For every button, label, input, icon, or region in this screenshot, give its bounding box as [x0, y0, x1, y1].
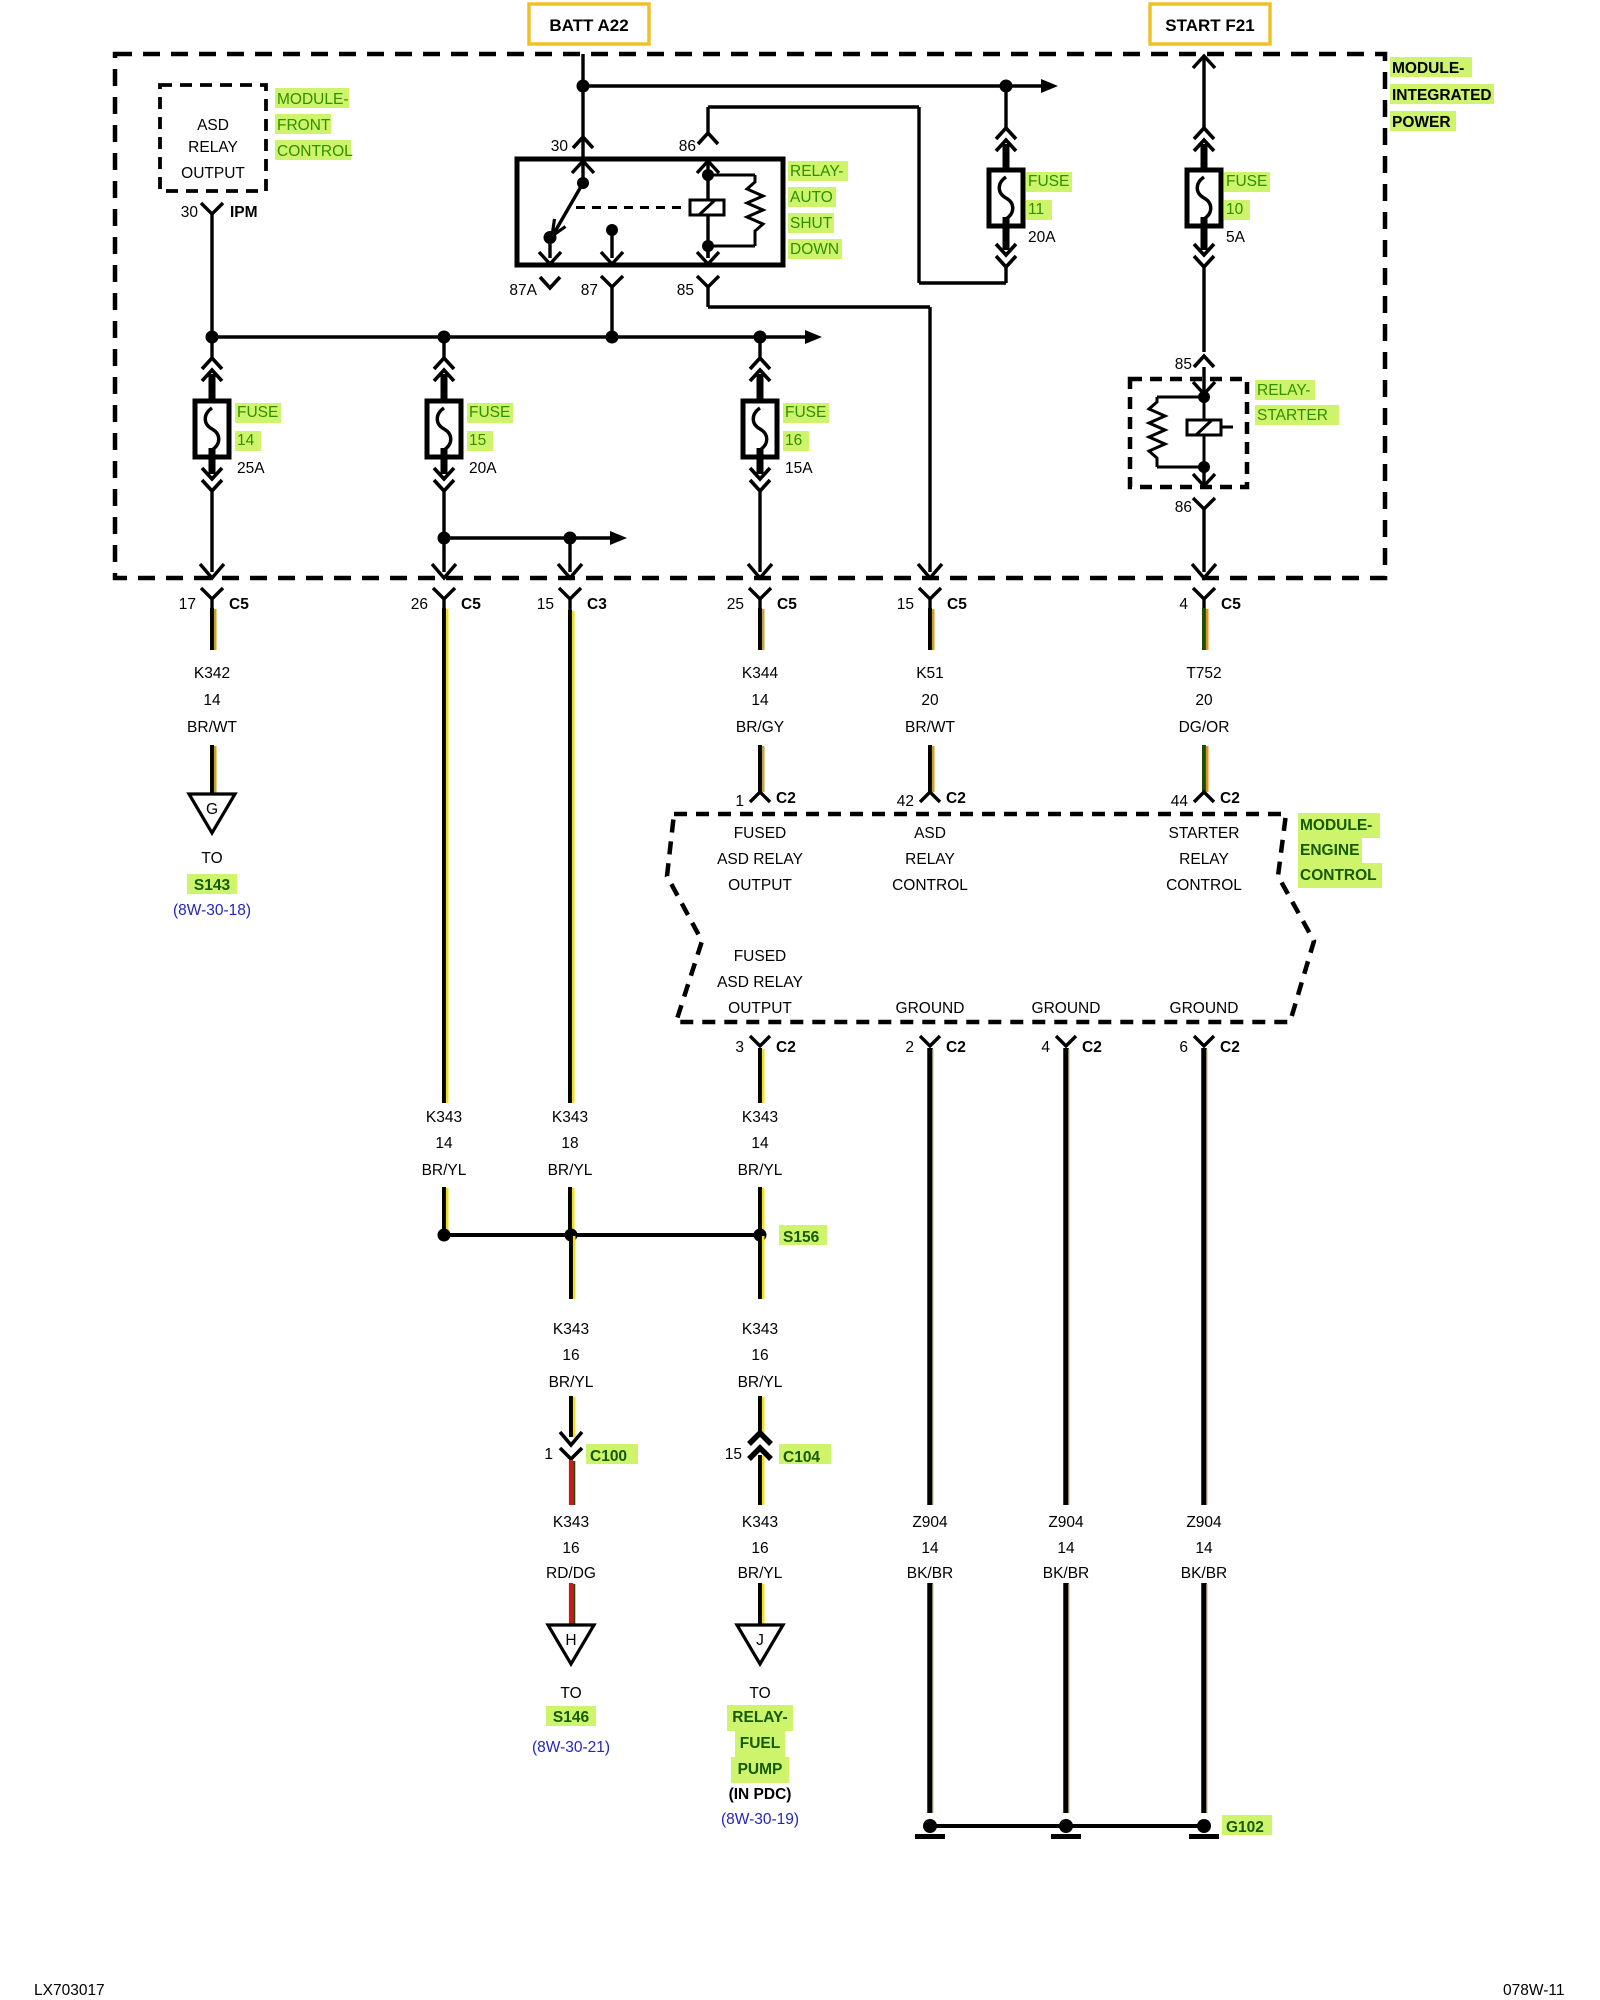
- connector Y pin 86 below starter relay: [1175, 498, 1215, 572]
- off-page connector J: [737, 1625, 783, 1664]
- svg-text:16: 16: [751, 1347, 768, 1364]
- svg-text:RELAY: RELAY: [188, 139, 238, 156]
- svg-text:STARTER: STARTER: [1169, 825, 1240, 842]
- label FUSE 16 15A: [783, 403, 829, 477]
- connector C2 pin 4 engine module bottom: [1041, 1036, 1101, 1056]
- connector C5 pin 15 at IPM boundary: [897, 564, 967, 613]
- svg-text:RELAY-: RELAY-: [790, 163, 843, 180]
- wire label K343 16 BR/YL: [738, 1514, 783, 1582]
- svg-text:(IN PDC): (IN PDC): [729, 1786, 792, 1803]
- svg-text:MODULE-: MODULE-: [1300, 817, 1372, 834]
- wire: fuse 16 output: [758, 491, 761, 572]
- svg-text:14: 14: [203, 692, 221, 709]
- wire label K343 14 BR/YL: [422, 1109, 467, 1179]
- connector chevron pin 30 above relay: [573, 137, 593, 148]
- svg-text:INTEGRATED: INTEGRATED: [1392, 87, 1492, 104]
- fuse F11: [989, 128, 1023, 283]
- svg-text:K344: K344: [742, 665, 779, 682]
- fuse F14: [195, 337, 229, 491]
- svg-text:(8W-30-21): (8W-30-21): [532, 1739, 610, 1756]
- label MODULE-ENGINE CONTROL: [1298, 813, 1382, 888]
- ground symbol (x=1204): [1189, 1819, 1219, 1839]
- svg-text:20: 20: [921, 692, 939, 709]
- wire: IPM distribution bus: [206, 330, 823, 344]
- wire Z904 14 BK/BR (x=1204): [1204, 1048, 1207, 1505]
- svg-text:BATT A22: BATT A22: [549, 16, 628, 35]
- pin 86 male arrow into relay: [697, 161, 719, 200]
- wire K343 to S156: [444, 1187, 447, 1235]
- wire Z904 lower: [1066, 1583, 1069, 1813]
- svg-text:14: 14: [1195, 1540, 1213, 1557]
- label FUSE 10 5A: [1224, 172, 1270, 246]
- svg-text:FUSE: FUSE: [785, 404, 826, 421]
- svg-text:IPM: IPM: [230, 204, 258, 221]
- svg-text:30: 30: [551, 138, 569, 155]
- svg-text:2: 2: [905, 1039, 914, 1056]
- wire Z904 14 BK/BR (x=930): [930, 1048, 933, 1505]
- wire K343 to S156: [760, 1187, 763, 1235]
- label RELAY-AUTO SHUT DOWN: [788, 161, 848, 259]
- connector C2 pin 42 engine module: [897, 790, 966, 810]
- svg-text:CONTROL: CONTROL: [277, 143, 353, 160]
- svg-text:10: 10: [1226, 201, 1244, 218]
- svg-text:FRONT: FRONT: [277, 117, 331, 134]
- svg-text:ASD RELAY: ASD RELAY: [717, 851, 803, 868]
- wire K343 16 BR/YL below S156: [571, 1235, 574, 1299]
- wire T752 lower: [1204, 745, 1207, 792]
- connector C5 pin 4 at IPM boundary: [1179, 564, 1241, 613]
- svg-text:C3: C3: [587, 596, 607, 613]
- label C100: [586, 1444, 638, 1465]
- connector C2 pin 3 engine module bottom: [735, 1036, 795, 1056]
- wire to C104: [760, 1396, 763, 1434]
- svg-text:85: 85: [677, 282, 694, 299]
- svg-text:16: 16: [785, 432, 802, 449]
- pin 30 label: [551, 138, 569, 155]
- starter relay resistor: [1149, 397, 1204, 467]
- svg-text:ASD: ASD: [914, 825, 946, 842]
- label C104: [779, 1444, 831, 1466]
- wire K344 lower: [760, 745, 763, 792]
- svg-text:30: 30: [181, 204, 199, 221]
- svg-text:BK/BR: BK/BR: [1043, 1565, 1090, 1582]
- svg-text:ENGINE: ENGINE: [1300, 842, 1359, 859]
- svg-text:87: 87: [581, 282, 598, 299]
- svg-text:DOWN: DOWN: [790, 241, 839, 258]
- wire K342 14 BR/WT upper: [212, 608, 215, 650]
- svg-text:OUTPUT: OUTPUT: [181, 165, 245, 182]
- starter relay pin 86 male arrow: [1193, 467, 1215, 486]
- engine module pin function labels row 1: [717, 825, 1242, 894]
- connector C100 pin 1: [544, 1432, 582, 1463]
- svg-text:BR/YL: BR/YL: [738, 1162, 783, 1179]
- svg-text:FUSED: FUSED: [734, 948, 787, 965]
- wire: top horizontal feed to fuse 11 with continuation arrow: [583, 79, 1058, 93]
- svg-text:15A: 15A: [785, 460, 813, 477]
- svg-text:BR/YL: BR/YL: [548, 1162, 593, 1179]
- svg-text:RELAY-: RELAY-: [732, 1709, 787, 1726]
- svg-text:14: 14: [921, 1540, 939, 1557]
- svg-text:C2: C2: [946, 1039, 966, 1056]
- svg-text:14: 14: [751, 1135, 769, 1152]
- svg-text:C5: C5: [461, 596, 481, 613]
- relay K1 RELAY-AUTO SHUT DOWN box: [517, 159, 783, 265]
- ground bus G102: [930, 1824, 1204, 1828]
- connector C5 pin 26 at IPM boundary: [411, 564, 481, 613]
- pin 87 terminal: [601, 224, 623, 264]
- svg-text:6: 6: [1179, 1039, 1188, 1056]
- svg-text:86: 86: [1175, 499, 1192, 516]
- wire: fuse 15 output with branch: [438, 491, 628, 572]
- svg-text:G102: G102: [1226, 1819, 1264, 1836]
- svg-text:15: 15: [725, 1446, 742, 1463]
- svg-text:C2: C2: [776, 1039, 796, 1056]
- connector C3 pin 15 at IPM boundary: [537, 564, 607, 613]
- svg-text:1: 1: [544, 1446, 553, 1463]
- svg-text:K343: K343: [742, 1321, 778, 1338]
- wire K342 lower: [212, 745, 215, 794]
- svg-text:26: 26: [411, 596, 428, 613]
- wire Z904 lower: [930, 1583, 933, 1813]
- svg-text:42: 42: [897, 793, 914, 810]
- connector C2 pin 6 engine module bottom: [1179, 1036, 1239, 1056]
- svg-text:1: 1: [735, 793, 744, 810]
- svg-text:RELAY-: RELAY-: [1257, 382, 1310, 399]
- off-page connector H: [548, 1625, 594, 1664]
- pin 86 label: [679, 138, 696, 155]
- label S156: [779, 1225, 827, 1246]
- svg-text:K343: K343: [553, 1514, 589, 1531]
- svg-text:C2: C2: [946, 790, 966, 807]
- connector C2 pin 2 engine module bottom: [905, 1036, 965, 1056]
- wire label K343 18 BR/YL: [548, 1109, 593, 1179]
- svg-text:CONTROL: CONTROL: [892, 877, 968, 894]
- wire BR/YL lower: [760, 1583, 763, 1625]
- svg-text:15: 15: [537, 596, 554, 613]
- svg-text:K343: K343: [742, 1109, 778, 1126]
- svg-text:H: H: [565, 1632, 576, 1649]
- connector chevron pin 87A below relay: [509, 277, 560, 299]
- svg-text:Z904: Z904: [1186, 1514, 1222, 1531]
- connector C104 pin 15: [725, 1433, 771, 1463]
- connector C2 pin 1 engine module: [735, 790, 795, 810]
- svg-text:S156: S156: [783, 1229, 820, 1246]
- wire label K344 14 BR/GY: [736, 665, 784, 736]
- starter relay pin 85 male arrow: [1193, 367, 1215, 403]
- svg-text:16: 16: [562, 1540, 579, 1557]
- svg-text:20A: 20A: [1028, 229, 1056, 246]
- module boundary: MODULE-ENGINE CONTROL dashed outline: [667, 814, 1314, 1022]
- net label BATT A22: [529, 4, 649, 44]
- svg-text:14: 14: [751, 692, 769, 709]
- svg-text:K51: K51: [916, 665, 944, 682]
- svg-text:G: G: [206, 801, 218, 818]
- wire: fuse 11 output to ASD relay pin 86: [708, 107, 1006, 283]
- module boundary: MODULE-INTEGRATED POWER (IPM) dashed box: [115, 54, 1385, 578]
- svg-text:25A: 25A: [237, 460, 265, 477]
- svg-text:CONTROL: CONTROL: [1166, 877, 1242, 894]
- svg-text:S143: S143: [194, 877, 231, 894]
- relay RELAY-STARTER dashed box: [1130, 379, 1247, 487]
- male arrow START F21 into IPM: [1193, 56, 1215, 130]
- svg-text:BR/YL: BR/YL: [422, 1162, 467, 1179]
- svg-text:ASD RELAY: ASD RELAY: [717, 974, 803, 991]
- splice S156 bus: [438, 1229, 767, 1242]
- connector 30 IPM: [181, 203, 258, 228]
- wire label K343 16 BR/YL: [549, 1321, 594, 1391]
- svg-text:15: 15: [897, 596, 914, 613]
- wire K344 14 BR/GY upper: [760, 608, 763, 650]
- svg-text:START F21: START F21: [1165, 16, 1254, 35]
- label RELAY-STARTER: [1255, 380, 1339, 425]
- svg-text:S146: S146: [553, 1709, 590, 1726]
- svg-text:BK/BR: BK/BR: [1181, 1565, 1228, 1582]
- svg-text:K343: K343: [742, 1514, 778, 1531]
- svg-text:FUSE: FUSE: [237, 404, 278, 421]
- wire K343 16 RD/DG upper: [571, 1460, 574, 1505]
- wire T752 20 DG/OR upper: [1204, 608, 1207, 650]
- wire Z904 14 BK/BR (x=1066): [1066, 1048, 1069, 1505]
- svg-text:ASD: ASD: [197, 117, 229, 134]
- starter relay coil: [1187, 397, 1233, 473]
- svg-text:14: 14: [435, 1135, 453, 1152]
- wire: fuse 14 output: [210, 491, 213, 572]
- wire to C100: [571, 1396, 574, 1437]
- wire K343 16 BR/YL below C104: [760, 1455, 763, 1505]
- connector Y pin 85 below relay: [677, 276, 719, 299]
- wire K343 14 BR/YL from pin 3: [760, 1048, 763, 1103]
- svg-text:BR/YL: BR/YL: [738, 1374, 783, 1391]
- wire label K342 14 BR/WT: [187, 665, 237, 736]
- svg-text:C104: C104: [783, 1449, 820, 1466]
- label TO S143: [173, 850, 251, 919]
- svg-text:Z904: Z904: [912, 1514, 948, 1531]
- wire label K343 16 RD/DG: [546, 1514, 596, 1582]
- pin 85 male arrow out of relay: [697, 246, 719, 264]
- connector C5 pin 25 at IPM boundary: [727, 564, 797, 613]
- svg-text:87A: 87A: [509, 282, 537, 299]
- svg-text:FUSE: FUSE: [1028, 173, 1069, 190]
- off-page connector G: [189, 794, 235, 833]
- ground symbol (x=1066): [1051, 1819, 1081, 1839]
- svg-text:AUTO: AUTO: [790, 189, 833, 206]
- svg-text:C5: C5: [229, 596, 249, 613]
- svg-text:J: J: [756, 1632, 764, 1649]
- wire K343 to S156 bus: [570, 1187, 573, 1235]
- connector Y pin 87 below relay: [581, 276, 623, 337]
- svg-text:CONTROL: CONTROL: [1300, 867, 1377, 884]
- relay suppression resistor: [708, 175, 763, 246]
- svg-text:MODULE-: MODULE-: [277, 91, 348, 108]
- svg-text:RELAY: RELAY: [1179, 851, 1229, 868]
- svg-text:20: 20: [1195, 692, 1213, 709]
- svg-text:FUSE: FUSE: [469, 404, 510, 421]
- svg-text:TO: TO: [560, 1685, 581, 1702]
- connector C2 pin 44 engine module: [1171, 790, 1240, 810]
- svg-text:K343: K343: [552, 1109, 588, 1126]
- wire label Z904 14 BK/BR: [1181, 1514, 1228, 1582]
- wire RD/DG lower: [571, 1583, 574, 1625]
- wire label K343 14 BR/YL: [738, 1109, 783, 1179]
- svg-text:STARTER: STARTER: [1257, 407, 1328, 424]
- svg-text:RELAY: RELAY: [905, 851, 955, 868]
- svg-text:85: 85: [1175, 356, 1192, 373]
- pin 30 male arrow into relay: [572, 161, 594, 189]
- svg-text:Z904: Z904: [1048, 1514, 1084, 1531]
- svg-text:(8W-30-18): (8W-30-18): [173, 902, 251, 919]
- wire K343 16 BR/YL below S156 right: [760, 1235, 763, 1299]
- label FUSE 11 20A: [1026, 172, 1072, 246]
- svg-text:14: 14: [237, 432, 255, 449]
- wire label Z904 14 BK/BR: [907, 1514, 954, 1582]
- pin 87A terminal: [539, 231, 561, 264]
- svg-text:GROUND: GROUND: [1170, 1000, 1239, 1017]
- svg-text:POWER: POWER: [1392, 114, 1451, 131]
- svg-text:C5: C5: [947, 596, 967, 613]
- module boundary: ASD RELAY OUTPUT dashed box: [160, 85, 266, 191]
- svg-text:GROUND: GROUND: [896, 1000, 965, 1017]
- svg-text:5A: 5A: [1226, 229, 1246, 246]
- svg-text:FUSE: FUSE: [1226, 173, 1267, 190]
- wire K343 14 BR/YL long: [444, 608, 447, 1103]
- svg-text:C100: C100: [590, 1448, 627, 1465]
- svg-text:BR/WT: BR/WT: [187, 719, 237, 736]
- svg-text:LX703017: LX703017: [34, 1982, 105, 1999]
- ground symbol (x=930): [915, 1819, 945, 1839]
- wire: 30 IPM output down: [210, 228, 213, 337]
- wire K51 lower: [930, 745, 933, 792]
- svg-text:PUMP: PUMP: [738, 1761, 783, 1778]
- relay switch arm (30 to 87A): [552, 183, 583, 236]
- svg-text:DG/OR: DG/OR: [1179, 719, 1230, 736]
- svg-text:C5: C5: [777, 596, 797, 613]
- svg-text:16: 16: [562, 1347, 579, 1364]
- wire: BATT A22 down to ASD relay pin 30: [581, 54, 584, 159]
- svg-text:BR/GY: BR/GY: [736, 719, 784, 736]
- relay coil symbol: [690, 200, 724, 215]
- node: junction BATT feed: [577, 80, 590, 93]
- label FUSE 14 25A: [235, 403, 281, 477]
- svg-text:17: 17: [179, 596, 196, 613]
- svg-text:44: 44: [1171, 793, 1189, 810]
- fuse F16: [743, 337, 777, 491]
- connector chevron pin 86 above relay: [698, 133, 718, 144]
- sheet number 078W-11: [1503, 1982, 1564, 1999]
- svg-text:15: 15: [469, 432, 486, 449]
- svg-text:4: 4: [1179, 596, 1188, 613]
- relay internal dashed actuation link: [576, 206, 688, 209]
- wire label K343 16 BR/YL: [738, 1321, 783, 1391]
- svg-text:BR/YL: BR/YL: [549, 1374, 594, 1391]
- svg-text:GROUND: GROUND: [1032, 1000, 1101, 1017]
- svg-text:TO: TO: [749, 1685, 770, 1702]
- wire label T752 20 DG/OR: [1179, 665, 1230, 736]
- svg-text:14: 14: [1057, 1540, 1075, 1557]
- svg-text:11: 11: [1028, 201, 1044, 218]
- svg-text:4: 4: [1041, 1039, 1050, 1056]
- fuse F15: [427, 337, 461, 491]
- svg-text:C2: C2: [1082, 1039, 1102, 1056]
- svg-text:K343: K343: [553, 1321, 589, 1338]
- svg-text:OUTPUT: OUTPUT: [728, 1000, 792, 1017]
- label FUSE 15 20A: [467, 403, 513, 477]
- svg-text:C2: C2: [1220, 790, 1240, 807]
- wire: fuse 11 feed: [1004, 86, 1007, 130]
- svg-text:TO: TO: [201, 850, 222, 867]
- svg-text:C2: C2: [1220, 1039, 1240, 1056]
- label TO RELAY-FUEL PUMP: [721, 1685, 799, 1828]
- wire K343 18 BR/YL long: [570, 610, 573, 1103]
- svg-text:K342: K342: [194, 665, 230, 682]
- net label START F21: [1150, 4, 1270, 44]
- svg-text:078W-11: 078W-11: [1503, 1982, 1564, 1999]
- svg-text:(8W-30-19): (8W-30-19): [721, 1811, 799, 1828]
- label MODULE-INTEGRATED POWER: [1390, 57, 1494, 131]
- svg-text:BK/BR: BK/BR: [907, 1565, 954, 1582]
- svg-text:T752: T752: [1186, 665, 1221, 682]
- wire label K51 20 BR/WT: [905, 665, 955, 736]
- connector C5 pin 17 at IPM boundary: [179, 564, 249, 613]
- svg-text:OUTPUT: OUTPUT: [728, 877, 792, 894]
- wire label Z904 14 BK/BR: [1043, 1514, 1090, 1582]
- wire Z904 lower: [1204, 1583, 1207, 1813]
- svg-text:BR/WT: BR/WT: [905, 719, 955, 736]
- svg-text:C5: C5: [1221, 596, 1241, 613]
- label MODULE-FRONT CONTROL: [275, 88, 353, 160]
- fuse F10: [1187, 128, 1221, 352]
- sheet number LX703017: [34, 1982, 105, 1999]
- wire: pin 85 to K51 column: [708, 287, 930, 572]
- svg-text:3: 3: [735, 1039, 744, 1056]
- svg-text:18: 18: [561, 1135, 578, 1152]
- label G102: [1222, 1815, 1272, 1836]
- label TO S146: [532, 1685, 610, 1756]
- relay coil lower wire: [702, 215, 714, 258]
- svg-text:86: 86: [679, 138, 696, 155]
- svg-text:SHUT: SHUT: [790, 215, 833, 232]
- engine module pin function labels row 2: [717, 948, 1238, 1017]
- svg-text:16: 16: [751, 1540, 768, 1557]
- svg-text:FUSED: FUSED: [734, 825, 787, 842]
- connector chevron pin 85 above starter relay: [1175, 356, 1214, 373]
- svg-text:20A: 20A: [469, 460, 497, 477]
- svg-text:RD/DG: RD/DG: [546, 1565, 596, 1582]
- svg-text:MODULE-: MODULE-: [1392, 60, 1464, 77]
- svg-text:FUEL: FUEL: [740, 1735, 780, 1752]
- svg-text:BR/YL: BR/YL: [738, 1565, 783, 1582]
- svg-text:K343: K343: [426, 1109, 462, 1126]
- svg-text:25: 25: [727, 596, 744, 613]
- wire K51 20 BR/WT upper: [930, 608, 933, 650]
- svg-text:C2: C2: [776, 790, 796, 807]
